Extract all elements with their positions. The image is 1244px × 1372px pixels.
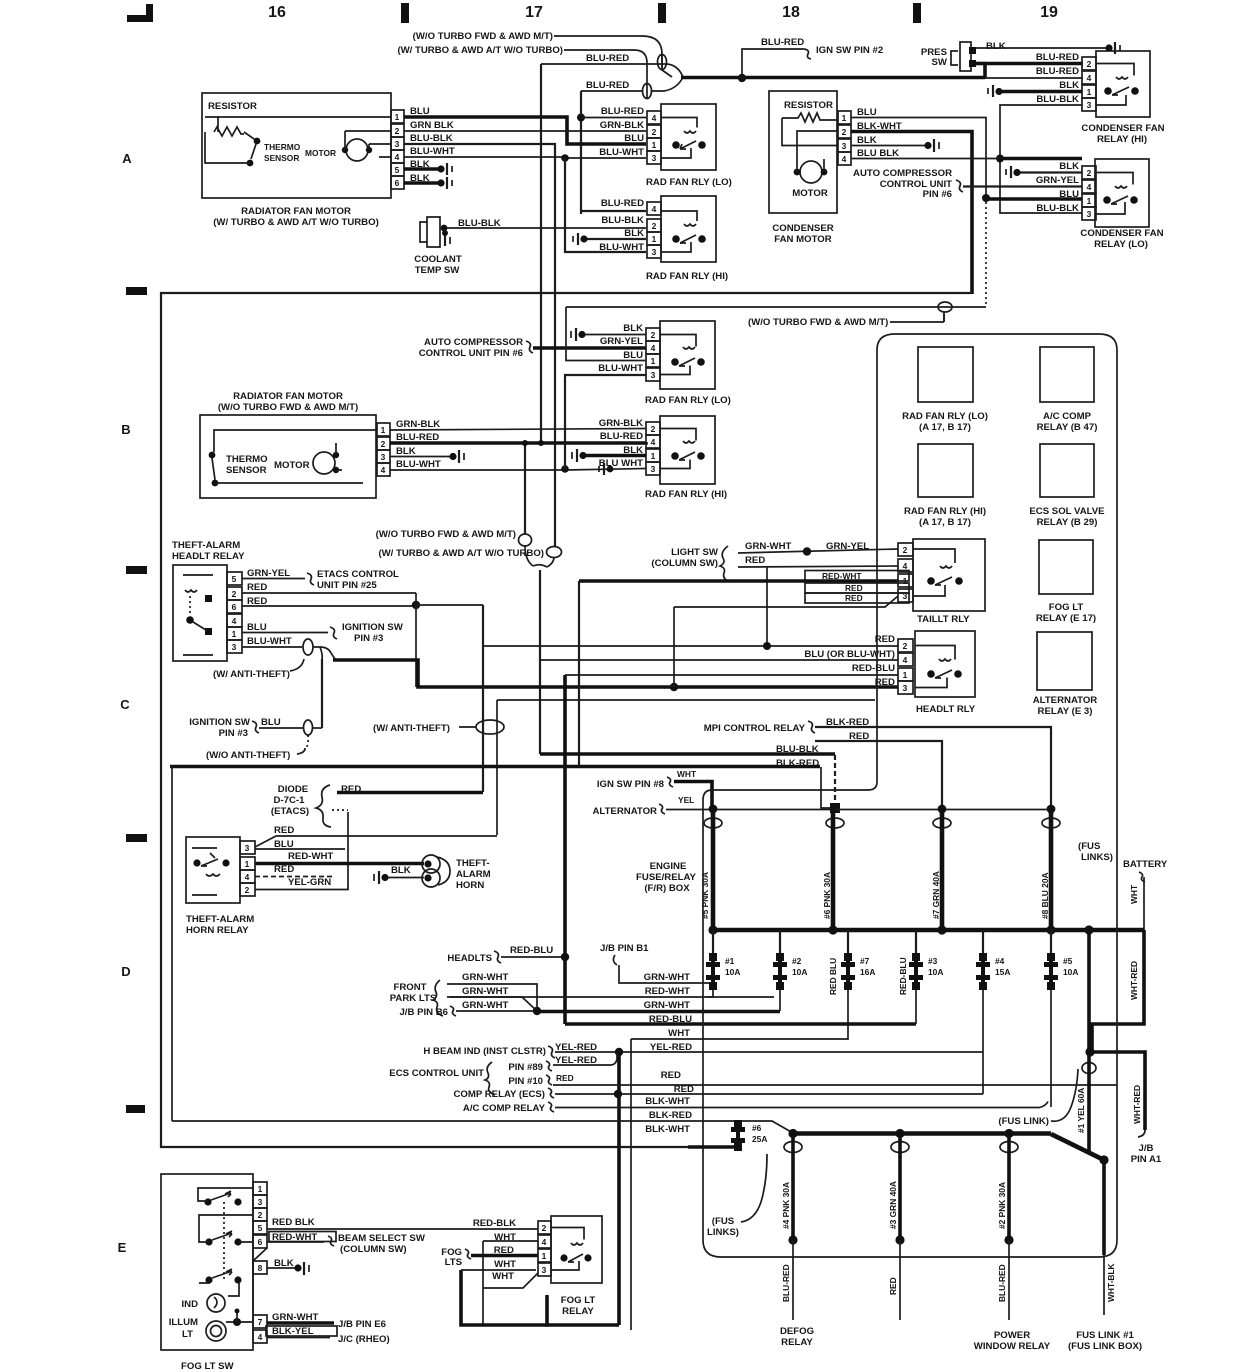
svg-text:BLU-WHT: BLU-WHT <box>410 146 455 157</box>
thin down x821 <box>821 767 835 808</box>
svg-text:2: 2 <box>652 221 657 231</box>
oval connector O2 <box>643 84 652 99</box>
dashed wire pin4 <box>255 876 335 878</box>
rly lo B contacts <box>671 358 679 366</box>
svg-text:GRN-WHT: GRN-WHT <box>644 1000 690 1011</box>
svg-text:4: 4 <box>652 113 657 123</box>
theft-alarm headlt relay box <box>173 565 227 661</box>
oval connector O1 <box>658 55 667 70</box>
wire RED y646 <box>483 645 898 647</box>
motor leads to pins <box>797 131 838 172</box>
svg-text:RED: RED <box>674 1084 694 1095</box>
vertical x566 rly lo B pin3 <box>565 375 646 469</box>
vertical x483 wht <box>482 1241 484 1325</box>
svg-text:WHT: WHT <box>492 1271 514 1282</box>
wire headlts to dot <box>501 956 565 958</box>
svg-text:10A: 10A <box>792 967 807 977</box>
bold wire RED diode <box>337 791 483 795</box>
vertical x348 yel-grn <box>347 812 349 888</box>
svg-text:2: 2 <box>542 1223 547 1233</box>
pin wires inside <box>218 117 391 157</box>
wire RED y607 to taillt pin3 <box>674 596 898 607</box>
sensor wire B <box>215 482 363 484</box>
svg-text:GRN-YEL: GRN-YEL <box>1036 175 1079 186</box>
tick 18 col <box>658 3 666 23</box>
ground + wire horn <box>386 877 424 879</box>
svg-text:E: E <box>118 1240 127 1255</box>
svg-text:BLU-RED: BLU-RED <box>761 37 804 48</box>
curl headlts <box>494 951 501 963</box>
ground + wire rly lo B pin2 <box>583 334 646 336</box>
CONDENSER FAN RELAY (HI) box <box>1096 51 1150 117</box>
wire RED-WHT y997 <box>450 996 774 998</box>
svg-text:2: 2 <box>903 641 908 651</box>
svg-text:RED: RED <box>274 825 294 836</box>
svg-text:CONDENSER FAN: CONDENSER FAN <box>1081 123 1164 134</box>
wire BLU-RED y91 <box>581 79 682 91</box>
wire RED-WHT pin6 <box>267 1241 324 1243</box>
dot defog <box>788 1235 797 1244</box>
wire RED-BLK pin5 to fog relay <box>267 1228 538 1230</box>
vertical x540 down <box>539 570 541 754</box>
svg-text:1: 1 <box>1087 87 1092 97</box>
oval x900 <box>891 1142 909 1153</box>
svg-text:(F/R) BOX: (F/R) BOX <box>644 883 690 894</box>
wire pin4 BLU-WHT <box>404 157 646 158</box>
svg-text:6: 6 <box>232 602 237 612</box>
margin dash E <box>126 1105 145 1113</box>
wire BLU pin1 right and down <box>851 118 986 198</box>
svg-text:2: 2 <box>651 330 656 340</box>
svg-text:2: 2 <box>652 127 657 137</box>
motor M1 circle <box>346 139 368 161</box>
diode curl bracket <box>316 785 331 827</box>
wire sensor to box <box>205 132 250 163</box>
wire RED y605 to x483 <box>416 604 483 606</box>
svg-text:WHT-RED: WHT-RED <box>1132 1085 1142 1124</box>
bold wire RED to pin1 <box>471 1254 538 1258</box>
svg-text:RED-BLU: RED-BLU <box>649 1014 692 1025</box>
svg-text:DEFOG: DEFOG <box>780 1326 814 1337</box>
wire RED mpi <box>815 741 942 808</box>
wire BLU y660 to pin4 <box>540 659 898 661</box>
thin tail fus link1 <box>1103 1255 1105 1315</box>
svg-text:8: 8 <box>258 1263 263 1273</box>
wire BLK-RED y1121 D box bottom <box>172 1121 793 1133</box>
cond lo pins 2,4,1,3 <box>1082 166 1096 220</box>
wire oval to funnel <box>313 647 335 659</box>
svg-text:16: 16 <box>268 4 286 21</box>
horn relay pins 3,1,4,2 <box>240 841 255 896</box>
svg-text:3: 3 <box>903 591 908 601</box>
bold fuse feeder x833 <box>831 808 836 930</box>
svg-text:RED-WHT: RED-WHT <box>288 851 333 862</box>
margin dash D <box>126 834 147 842</box>
ground tap BLU-WHT <box>607 466 614 473</box>
oval anti-theft pair <box>476 720 504 734</box>
motor leads <box>345 131 369 150</box>
svg-text:ETACS CONTROL: ETACS CONTROL <box>317 569 399 580</box>
svg-text:FUS LINK #1: FUS LINK #1 <box>1076 1330 1134 1341</box>
svg-text:BLU-WHT: BLU-WHT <box>396 459 441 470</box>
curl pin10 <box>546 1075 552 1085</box>
wire park1 <box>447 984 537 1011</box>
oval ign C <box>304 720 313 735</box>
svg-text:GRN-BLK: GRN-BLK <box>599 418 643 429</box>
svg-text:YEL: YEL <box>678 795 694 805</box>
svg-text:ALTERNATOR: ALTERNATOR <box>1033 695 1098 706</box>
svg-text:DIODE: DIODE <box>278 784 309 795</box>
wire pin4 BLU-WHT <box>390 469 646 471</box>
svg-text:4: 4 <box>652 204 657 214</box>
svg-text:3: 3 <box>381 452 386 462</box>
svg-text:BLK: BLK <box>396 446 416 457</box>
svg-text:H BEAM IND (INST CLSTR): H BEAM IND (INST CLSTR) <box>423 1046 546 1057</box>
bold wire to junction <box>681 76 985 80</box>
svg-text:BLK: BLK <box>391 865 411 876</box>
svg-text:J/C (RHEO): J/C (RHEO) <box>338 1334 390 1345</box>
svg-text:(FUS: (FUS <box>712 1216 735 1227</box>
wire WHT-RED right jog <box>1092 930 1144 1051</box>
fog relay pins 2,4,1,3 <box>538 1221 551 1276</box>
svg-text:J/B PIN B1: J/B PIN B1 <box>600 943 649 954</box>
svg-text:2: 2 <box>903 545 908 555</box>
svg-text:BLK: BLK <box>624 228 644 239</box>
wire BLK pin3 to ground <box>851 145 926 147</box>
oval below dot x1089 <box>1082 1063 1096 1074</box>
vertical x767 down <box>766 567 768 646</box>
svg-text:BEAM SELECT SW: BEAM SELECT SW <box>338 1233 426 1244</box>
vertical x525 from BLU-RED junction <box>524 443 526 534</box>
wire BLU-RED to rly pin4 <box>581 117 646 119</box>
svg-text:BLU: BLU <box>247 622 267 633</box>
ground cm <box>924 142 931 149</box>
svg-text:THEFT-: THEFT- <box>456 858 490 869</box>
curl end fus <box>1040 1102 1048 1108</box>
svg-text:5: 5 <box>258 1223 263 1233</box>
ground fog sw <box>294 1264 301 1271</box>
headlt pins 2,4,1,3 <box>898 639 913 694</box>
svg-text:FOG LT SW: FOG LT SW <box>181 1361 235 1372</box>
wire label to x942 <box>890 321 944 323</box>
coolant ground <box>444 234 446 246</box>
svg-text:RAD FAN RLY (HI): RAD FAN RLY (HI) <box>904 506 986 517</box>
cond hi pins 2,4,1,3 <box>1082 57 1096 111</box>
svg-text:7: 7 <box>258 1317 263 1327</box>
cond lo contacts <box>1103 196 1111 204</box>
power window tail <box>1008 1240 1010 1320</box>
svg-text:GRN-BLK: GRN-BLK <box>396 419 440 430</box>
svg-text:RED BLU: RED BLU <box>828 958 838 995</box>
resistor left leg to pin3 <box>782 118 838 146</box>
wire BLK-RED mpi to x1051 <box>815 727 1051 810</box>
wire BLU BLK pin4 to node <box>851 158 999 160</box>
svg-text:#8 BLU 20A: #8 BLU 20A <box>1040 872 1050 919</box>
dashed vertical x986 down <box>985 202 987 307</box>
svg-text:WHT: WHT <box>668 1028 690 1039</box>
svg-text:6: 6 <box>395 178 400 188</box>
wire BLU stub <box>255 848 345 850</box>
svg-text:BLU: BLU <box>623 350 643 361</box>
bold vertical fus link1 <box>1102 1160 1106 1255</box>
svg-text:RED BLK: RED BLK <box>272 1217 315 1228</box>
svg-text:BLU-RED: BLU-RED <box>586 80 629 91</box>
junction dot park <box>533 1007 541 1015</box>
curl comp relay <box>548 1088 554 1098</box>
curl auto comp <box>956 180 963 192</box>
IND lamp <box>207 1294 225 1312</box>
svg-text:(FUS LINK): (FUS LINK) <box>998 1116 1049 1127</box>
svg-text:BLU (OR BLU-WHT): BLU (OR BLU-WHT) <box>804 649 895 660</box>
wire up to IGN SW PIN 2 <box>742 49 804 78</box>
svg-text:4: 4 <box>903 561 908 571</box>
svg-text:D: D <box>121 964 130 979</box>
svg-text:RED: RED <box>661 1070 681 1081</box>
svg-text:BLU-RED: BLU-RED <box>1036 66 1079 77</box>
wire pin3 BLU-BLK down x555 <box>404 144 555 546</box>
oval x1009 <box>1000 1142 1018 1153</box>
thin wire to pin4 <box>985 77 1083 79</box>
svg-text:RAD FAN RLY (LO): RAD FAN RLY (LO) <box>646 177 732 188</box>
fog sw contacts row3 <box>205 1276 212 1283</box>
rly lo B pins 2,4,1,3 <box>646 328 660 381</box>
svg-text:RELAY (B 29): RELAY (B 29) <box>1037 517 1098 528</box>
svg-text:WHT: WHT <box>1129 884 1139 904</box>
boxed label RED a <box>805 583 909 593</box>
svg-text:RESISTOR: RESISTOR <box>784 100 833 111</box>
svg-text:(W/ TURBO & AWD A/T W/O TURBO): (W/ TURBO & AWD A/T W/O TURBO) <box>213 217 379 228</box>
svg-text:25A: 25A <box>752 1134 767 1144</box>
svg-text:(W/O TURBO FWD & AWD M/T): (W/O TURBO FWD & AWD M/T) <box>376 529 516 540</box>
bold stub into relay lo top <box>1000 157 1082 161</box>
svg-text:WINDOW RELAY: WINDOW RELAY <box>974 1341 1051 1352</box>
svg-text:WHT-RED: WHT-RED <box>1129 961 1139 1000</box>
vertical x565 RED-BLU <box>563 675 567 1024</box>
svg-text:3: 3 <box>395 139 400 149</box>
svg-text:(W/ ANTI-THEFT): (W/ ANTI-THEFT) <box>373 723 450 734</box>
svg-text:(COLUMN SW): (COLUMN SW) <box>340 1244 407 1255</box>
svg-text:WHT: WHT <box>494 1259 516 1270</box>
RAD FAN RLY (HI) B box <box>660 416 715 484</box>
svg-text:GRN-WHT: GRN-WHT <box>462 1000 508 1011</box>
defog tail <box>792 1240 794 1320</box>
coolant temp switch <box>420 217 440 247</box>
wire WHT y1039 <box>631 990 848 1039</box>
dashed stub diode low <box>332 809 348 811</box>
svg-text:(FUS LINK BOX): (FUS LINK BOX) <box>1068 1341 1142 1352</box>
svg-text:3: 3 <box>232 642 237 652</box>
connector pins 1-6 radiator fan motor <box>391 110 404 189</box>
svg-text:SENSOR: SENSOR <box>264 153 299 163</box>
ecs curl <box>485 1062 495 1095</box>
svg-text:RED: RED <box>845 593 863 603</box>
svg-text:5: 5 <box>232 574 237 584</box>
fog sw internal wires <box>198 1188 253 1296</box>
wire BLK-WHT pin2 bold down x972 <box>851 132 972 295</box>
svg-text:2: 2 <box>258 1210 263 1220</box>
bold wire RED-WHT to taillt pin1 <box>579 579 898 583</box>
svg-text:4: 4 <box>1087 73 1092 83</box>
svg-text:3: 3 <box>652 247 657 257</box>
fuse3 bottom to red-blu <box>915 990 917 1024</box>
fog sw contacts row1 <box>204 1198 211 1205</box>
svg-text:MOTOR: MOTOR <box>792 188 828 199</box>
wire comp relay y1094 <box>555 1093 983 1095</box>
pres sw bracket <box>951 51 958 65</box>
park curl <box>433 980 443 1016</box>
svg-text:5: 5 <box>395 165 400 175</box>
svg-text:RADIATOR FAN MOTOR: RADIATOR FAN MOTOR <box>233 391 343 402</box>
ground G2 <box>437 179 444 186</box>
svg-text:1: 1 <box>842 113 847 123</box>
svg-text:IGNITION SW: IGNITION SW <box>189 717 251 728</box>
curl hbeam <box>548 1046 555 1058</box>
svg-text:BLK: BLK <box>1059 161 1079 172</box>
wire pin8 BLK to ground <box>267 1267 297 1269</box>
fog sw pins 1,-,2,5,6,8,7,4 <box>253 1182 267 1343</box>
svg-text:BLU-WHT: BLU-WHT <box>247 636 292 647</box>
junction dot x1104 <box>1099 1155 1108 1164</box>
wire WHT pin4 <box>483 1240 538 1242</box>
wire pin5 to ETACS <box>242 578 305 580</box>
ground mB <box>449 453 456 460</box>
horn relay innards <box>193 859 200 866</box>
theft-alarm horn symbol <box>422 855 440 873</box>
svg-text:16A: 16A <box>860 967 875 977</box>
svg-text:FOG LT: FOG LT <box>561 1295 596 1306</box>
svg-text:#5: #5 <box>1063 956 1073 966</box>
boxed label RED-WHT <box>805 571 909 582</box>
svg-text:BATTERY: BATTERY <box>1123 859 1168 870</box>
vertical x1089 through oval <box>1087 1052 1091 1151</box>
defog column wire <box>791 1136 795 1240</box>
svg-text:RED-BLU: RED-BLU <box>510 945 553 956</box>
oval defog <box>784 1142 802 1153</box>
vertical x541 from BLU-RED <box>540 64 542 443</box>
FR square RAD FAN RLY LO <box>918 347 973 402</box>
wire BLU ign C to oval <box>259 727 303 729</box>
ILLUM lamp <box>206 1321 226 1341</box>
wire x581 to hi pin4 <box>581 210 646 212</box>
dot x900 <box>895 1235 904 1244</box>
battery curl <box>1139 872 1145 882</box>
svg-text:BLU-RED: BLU-RED <box>601 198 644 209</box>
tick 19 col <box>913 3 921 23</box>
svg-text:GRN-WHT: GRN-WHT <box>462 972 508 983</box>
svg-text:10A: 10A <box>928 967 943 977</box>
cond hi contacts <box>1104 87 1112 95</box>
svg-text:#1: #1 <box>725 956 735 966</box>
wire BLU-RED y64 <box>541 64 683 77</box>
fog relay contacts <box>560 1254 567 1261</box>
svg-text:3: 3 <box>903 683 908 693</box>
wire right to JB PIN A1 drop <box>1090 1052 1145 1130</box>
tick 17 col <box>401 3 409 23</box>
fuse5 bottom to y1107 <box>1050 990 1052 1107</box>
svg-text:BLU-WHT: BLU-WHT <box>598 363 643 374</box>
svg-text:A/C COMP: A/C COMP <box>1043 411 1092 422</box>
svg-text:18: 18 <box>782 4 800 21</box>
svg-text:RELAY (LO): RELAY (LO) <box>1094 239 1148 250</box>
svg-text:TAILLT RLY: TAILLT RLY <box>917 614 970 625</box>
curl ign pin3 <box>330 627 337 639</box>
svg-text:MPI CONTROL RELAY: MPI CONTROL RELAY <box>704 723 806 734</box>
svg-text:(W/O TURBO FWD & AWD M/T): (W/O TURBO FWD & AWD M/T) <box>218 402 358 413</box>
svg-text:HEADLT RELAY: HEADLT RELAY <box>172 551 245 562</box>
RAD FAN RLY (LO) B box <box>660 321 715 389</box>
square junction x835 <box>830 803 840 813</box>
svg-text:4: 4 <box>232 616 237 626</box>
RAD FAN RLY (LO) A box <box>661 104 716 170</box>
svg-text:BLU-BLK: BLU-BLK <box>1036 203 1079 214</box>
wire pin2 RED <box>242 592 416 594</box>
svg-text:#4 PNK 30A: #4 PNK 30A <box>781 1182 791 1229</box>
wire YEL-GRN pin2 <box>255 888 348 890</box>
svg-text:1: 1 <box>651 356 656 366</box>
svg-text:RAD FAN RLY (LO): RAD FAN RLY (LO) <box>645 395 731 406</box>
svg-text:HORN: HORN <box>456 880 484 891</box>
rly lo A contacts <box>672 141 680 149</box>
svg-text:CONDENSER: CONDENSER <box>772 223 833 234</box>
svg-text:J/B PIN E6: J/B PIN E6 <box>338 1319 386 1330</box>
svg-text:(W/ TURBO & AWD A/T W/O TURBO): (W/ TURBO & AWD A/T W/O TURBO) <box>397 45 563 56</box>
bold WHT wire to x712 <box>674 782 712 809</box>
FR square ALTERNATOR RELAY <box>1037 632 1092 690</box>
wire pin6 to ground <box>404 181 438 185</box>
svg-text:BLU-RED: BLU-RED <box>1036 52 1079 63</box>
svg-text:COMP RELAY (ECS): COMP RELAY (ECS) <box>453 1089 545 1100</box>
rly lo A pins 4,2,1,3 <box>647 111 661 164</box>
svg-text:THERMO: THERMO <box>264 142 301 152</box>
F/R box outline <box>703 334 1117 1257</box>
wire YEL y809 <box>666 809 1051 811</box>
wire RED pin3 route <box>255 836 497 847</box>
svg-text:3: 3 <box>542 1265 547 1275</box>
label RED-WHT fog boxed <box>269 1232 336 1242</box>
svg-text:ILLUM: ILLUM <box>169 1317 198 1328</box>
svg-text:#2 PNK 30A: #2 PNK 30A <box>997 1182 1007 1229</box>
svg-text:IGNITION SW: IGNITION SW <box>342 622 404 633</box>
bus dot defog <box>788 1129 797 1138</box>
svg-text:4: 4 <box>1087 182 1092 192</box>
cond motor connector pins 1-4 <box>838 111 851 165</box>
svg-text:2: 2 <box>395 126 400 136</box>
bold fuse feeder x713 <box>711 808 716 930</box>
svg-text:BLU-RED: BLU-RED <box>601 106 644 117</box>
wire vert from top1 through O1 <box>662 55 672 77</box>
svg-text:BLU-RED: BLU-RED <box>781 1264 791 1302</box>
wire pin6 RED dashed <box>242 605 416 607</box>
svg-text:BLK: BLK <box>1059 80 1079 91</box>
svg-text:6: 6 <box>258 1237 263 1247</box>
FOG LT RELAY box <box>551 1216 602 1283</box>
svg-text:MOTOR: MOTOR <box>274 460 310 471</box>
BLU wire bus y307 <box>566 306 986 308</box>
svg-text:#6 PNK 30A: #6 PNK 30A <box>822 872 832 919</box>
wire BLK-WHT y1107 <box>555 1107 1040 1109</box>
main bus y930 <box>711 928 1144 933</box>
motor M2 <box>800 161 822 183</box>
junction x541 on BLU-RED <box>538 440 544 446</box>
curl alternator <box>659 804 665 814</box>
vertical x581 <box>580 91 582 214</box>
relay innards <box>185 590 197 592</box>
svg-text:LINKS): LINKS) <box>707 1227 739 1238</box>
svg-text:3: 3 <box>651 370 656 380</box>
wire GRN-YEL to rly lo B pin4 <box>533 346 646 350</box>
junction dot BLU-WHT <box>561 154 569 162</box>
wire park2 <box>447 997 537 1011</box>
